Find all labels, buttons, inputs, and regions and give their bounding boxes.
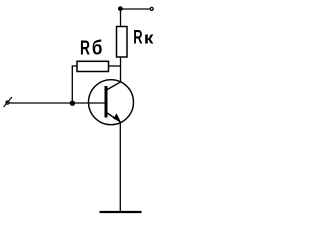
wire: supply junction down to resistor Rк	[120, 9, 122, 27]
resistor Rб	[77, 61, 109, 71]
wire: emitter down to ground	[119, 122, 121, 211]
node: base junction dot	[70, 101, 75, 106]
wire: supply node to top-right terminal	[121, 8, 150, 10]
ground	[100, 211, 142, 213]
wire: Rб left lead down to base node	[72, 66, 77, 103]
emitter stroke with arrow	[107, 113, 121, 123]
base bar	[105, 86, 108, 118]
transistor VT1 (NPN)	[89, 80, 134, 125]
terminal: supply (top right, open circle)	[150, 7, 153, 10]
terminal: input (open circle with slash)	[4, 97, 12, 107]
wire: Rк bottom to collector	[120, 57, 122, 83]
wire: base node to transistor base	[72, 102, 104, 104]
transistor body circle	[89, 80, 134, 125]
collector stroke	[107, 82, 121, 90]
svg-text:Rк: Rк	[133, 28, 154, 49]
resistor Rк	[117, 27, 128, 58]
node: supply junction dot	[118, 6, 123, 11]
wire: Rб right lead to collector net	[109, 65, 121, 67]
wire: input to base node	[10, 102, 73, 104]
svg-text:Rб: Rб	[80, 38, 102, 60]
